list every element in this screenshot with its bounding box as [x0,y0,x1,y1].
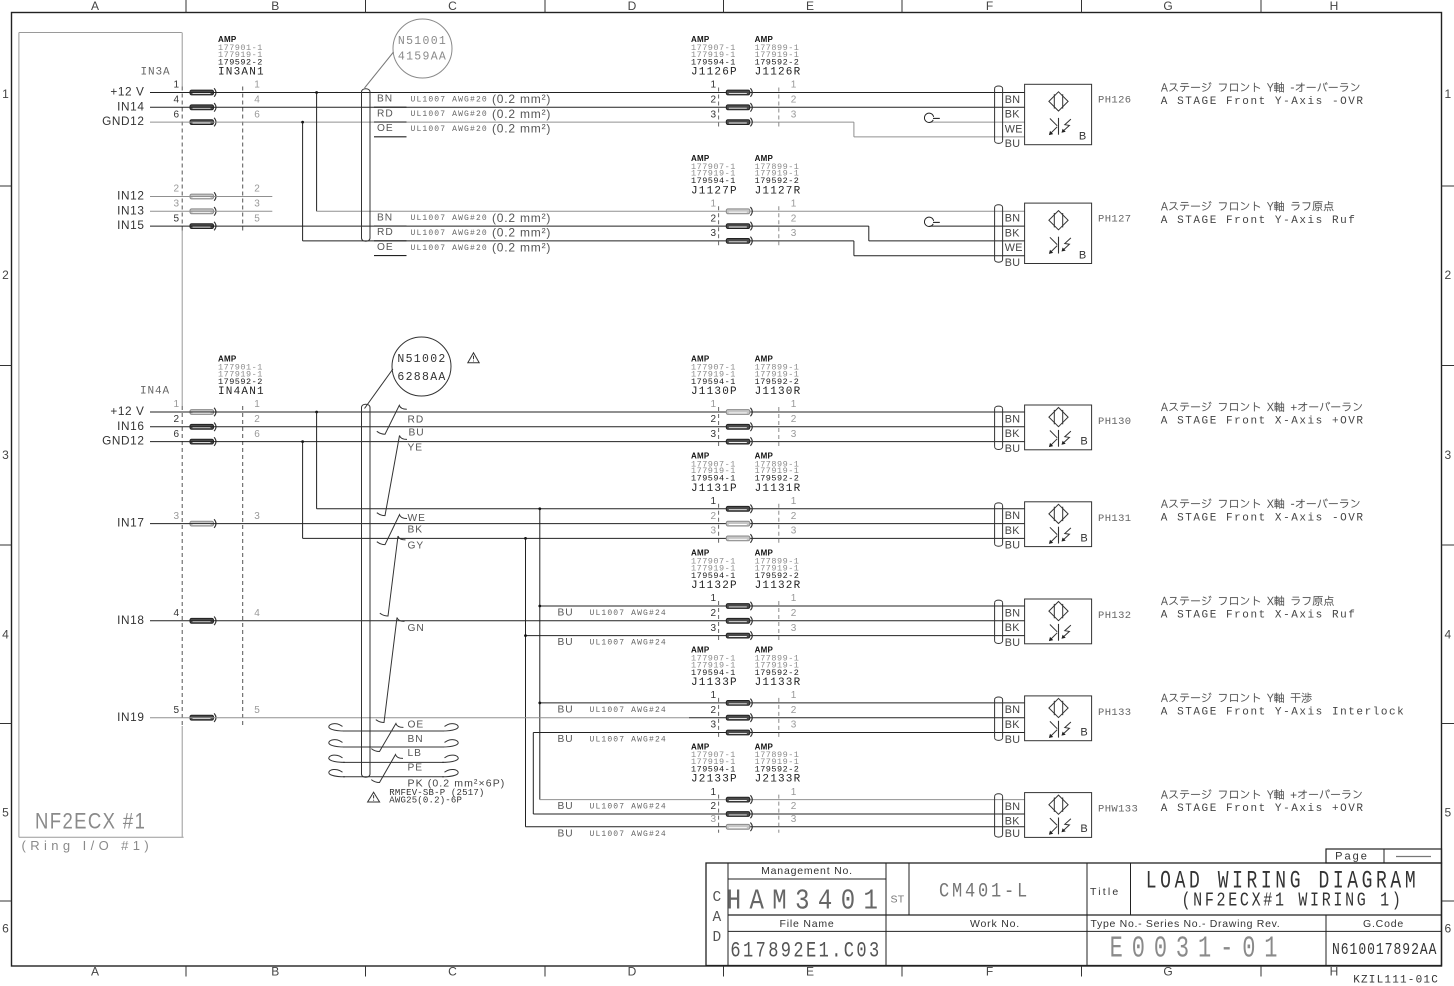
svg-text:BU: BU [1005,734,1021,746]
svg-text:UL1007 AWG#24: UL1007 AWG#24 [590,639,667,648]
connector J1133 mating dashed lines [718,698,720,739]
wire +12V row group6 [540,702,1025,704]
english label PH132 [1161,610,1357,622]
svg-text:OE: OE [377,123,394,134]
photo-interrupter PH133 box [1025,696,1092,741]
wire code OE group2 [377,242,394,253]
unused WE wire curl at PH126 [930,121,1025,123]
wire IN17 row group4 [150,523,1025,525]
sensor name PH133 [1098,707,1132,719]
terminal label BN PH133 [1005,704,1021,716]
terminal label BK PHW133 [1005,815,1021,827]
svg-text:(0.2 mm²): (0.2 mm²) [492,107,551,121]
svg-text:1: 1 [710,199,716,210]
svg-text:BU: BU [1005,443,1021,455]
LED emitter symbol PH131 [1049,504,1068,523]
svg-text:2: 2 [173,414,179,425]
wire +12V vertical group3 to group4 [316,412,318,509]
svg-text:WE: WE [1005,242,1023,254]
svg-text:BU: BU [409,428,425,439]
svg-text:2: 2 [2,268,9,282]
wire PH133 BU row group6 [533,732,1024,734]
LED emitter symbol PH126 [1049,92,1068,111]
node +12V junction group4 [538,507,541,510]
wire GND12 chain vertical [525,538,527,826]
svg-text:UL1007 AWG#20: UL1007 AWG#20 [411,110,488,119]
unused BK wire curl at PH127 [930,225,1025,227]
pin 1 of J1132 [710,593,716,604]
svg-text:BU: BU [558,828,574,839]
svg-text:B: B [271,0,279,13]
svg-text:J1130P: J1130P [691,386,738,398]
node GND12 junction group1 [301,121,304,124]
english label PHW133 [1161,803,1365,815]
svg-text:J2133P: J2133P [691,774,738,786]
wire GND12 row group7 [526,826,1025,828]
svg-text:D: D [628,0,637,13]
svg-text:2: 2 [791,511,797,522]
warning triangle cable note [368,792,380,802]
svg-text:6: 6 [173,109,179,120]
terminal label BK PH133 [1005,719,1021,731]
signal IN18 label and pin 4 of IN4A [117,613,144,627]
terminal label BN PH126 [1005,94,1021,106]
wire IN12 stub [150,196,272,198]
svg-text:2: 2 [791,95,797,106]
(Ring I/O #1) label [22,838,154,853]
english label PH127 [1161,215,1357,227]
node +12V junction group5 [538,605,541,608]
wire IN15 row [150,225,869,227]
wire IN19 row group6 [150,717,689,719]
svg-text:3: 3 [2,448,9,462]
svg-text:E: E [806,965,814,979]
connector J1127P part numbers [691,154,710,163]
photo-interrupter PH130 box [1025,405,1092,450]
svg-text:6288AA: 6288AA [397,371,446,384]
connector J1130R part numbers [755,355,774,364]
terminal label BU PH133 [1005,734,1021,746]
svg-text:4: 4 [254,95,260,106]
crossover mark GY [380,536,406,616]
cable spec PK (0.2 mm2 x 6P) [408,778,506,790]
g code value [1332,939,1438,959]
Type No Series No Drawing Rev header [1091,918,1281,930]
svg-text:PH132: PH132 [1098,610,1132,622]
wire +12V chain vertical [539,509,541,800]
svg-text:NF2ECX #1: NF2ECX #1 [35,810,146,834]
svg-text:J1127P: J1127P [691,185,738,197]
svg-text:4: 4 [173,95,179,106]
svg-text:2: 2 [710,511,716,522]
wire code BU AWG24 group7 r3 [558,828,574,839]
svg-text:C: C [712,890,721,906]
svg-text:OE: OE [377,242,394,253]
svg-text:UL1007 AWG#24: UL1007 AWG#24 [590,706,667,715]
pin 1 of J2133 [710,787,716,798]
svg-text:BN: BN [1005,94,1021,106]
drawing title line 1 [1146,867,1419,896]
svg-text:1: 1 [791,399,797,410]
svg-text:HAM3401: HAM3401 [727,885,887,918]
sensor name PH131 [1098,513,1132,525]
svg-text:PH127: PH127 [1098,213,1132,225]
sensor cable sheath PH132 [994,603,996,641]
svg-text:J1131R: J1131R [755,483,802,495]
svg-text:6: 6 [1444,922,1451,936]
svg-text:BN: BN [1005,510,1021,522]
pin 1 of J1131 [710,496,716,507]
connector J1130 mating dashed lines [718,407,720,448]
wire code GY trunk2 [408,540,425,551]
svg-text:6: 6 [254,109,260,120]
svg-text:2: 2 [710,801,716,812]
svg-text:AWG25(0.2)-6P: AWG25(0.2)-6P [389,796,462,806]
unused wire coil PE [343,776,444,778]
contact of IN3A pin 5 [190,224,214,229]
connector IN3A name [140,66,170,78]
crossover mark RD [377,405,407,434]
G.Code header [1363,918,1404,930]
wire code BU AWG24 group5 r1 [558,608,574,619]
wire code RD trunk2 [408,414,425,425]
work station CM401-L [939,879,1030,903]
svg-text:BN: BN [1005,801,1021,813]
svg-text:3: 3 [254,511,260,522]
node GND12 junction group5 [524,634,527,637]
svg-text:1: 1 [254,80,260,91]
svg-text:2: 2 [791,608,797,619]
B marking PH131 [1080,532,1087,544]
frame column letters top [91,0,99,13]
wire code BU AWG24 group6 r3 [558,734,574,745]
connector J1132P part numbers [691,549,710,558]
wire +12V row group7 [540,799,1025,801]
B marking PH127 [1079,249,1086,261]
svg-text:PH130: PH130 [1098,416,1132,428]
svg-text:1: 1 [710,690,716,701]
japanese label PH126 [1161,82,1359,92]
File Name header [779,918,834,930]
svg-text:UL1007 AWG#24: UL1007 AWG#24 [590,803,667,812]
connector J1133P part numbers [691,646,710,655]
svg-text:BU: BU [1005,828,1021,840]
connector mating dashed lines IN4A [181,406,183,726]
svg-text:UL1007 AWG#20: UL1007 AWG#20 [411,229,488,238]
sensor name PH132 [1098,610,1132,622]
japanese label PHW133 [1161,789,1362,799]
svg-text:KZIL111-01C: KZIL111-01C [1353,975,1439,986]
pin 3 of J2133 [710,814,716,825]
pin 3 of J1126 [710,109,716,120]
photo-interrupter PHW133 box [1025,793,1092,838]
svg-text:Management No.: Management No. [761,865,853,877]
signal IN15 label and pin 5 of IN3A [117,218,144,232]
svg-text:A STAGE Front Y-Axis -OVR: A STAGE Front Y-Axis -OVR [1161,96,1365,108]
svg-text:B: B [1080,823,1087,835]
svg-text:RD: RD [408,414,425,425]
svg-text:N610017892AA: N610017892AA [1332,939,1438,959]
file name value [730,938,881,963]
photo-interrupter PH132 box [1025,599,1092,644]
svg-text:A: A [712,910,721,926]
svg-text:BU: BU [1005,257,1021,269]
svg-text:N51001: N51001 [398,35,447,48]
svg-text:A: A [91,0,99,13]
connector J1131R part numbers [755,452,774,461]
svg-text:J1126P: J1126P [691,67,738,79]
leader line balloon N51001 [365,52,394,88]
svg-text:G: G [1163,0,1172,13]
svg-text:IN15: IN15 [117,218,144,232]
svg-text:UL1007 AWG#20: UL1007 AWG#20 [411,125,488,134]
terminal label BN PH127 [1005,213,1021,225]
svg-text:3: 3 [173,511,179,522]
svg-text:(Ring I/O #1): (Ring I/O #1) [22,838,154,853]
CAD letters [712,890,721,906]
warning triangle near balloon N51002 [468,353,479,363]
terminal label WE PH126 [1005,123,1023,135]
svg-text:RD: RD [377,108,394,119]
connector IN3A (NF2ECX side) part numbers [218,35,237,44]
wire code RD group1 [377,108,394,119]
frame column letters bottom [91,965,99,979]
connector J2133 mating dashed lines [718,795,720,833]
B marking PH130 [1080,436,1087,448]
svg-text:BU: BU [1005,138,1021,150]
sensor cable sheath PH126 [994,89,996,141]
signal IN12 label and pin 2 of IN3A [117,189,144,203]
svg-text:1: 1 [173,399,179,410]
svg-text:3: 3 [710,526,716,537]
connector J2133P part numbers [691,742,710,751]
svg-text:J1131P: J1131P [691,483,738,495]
svg-text:PH133: PH133 [1098,707,1132,719]
cable trunk N51002 sheath [361,408,363,775]
sensor cable sheath PH127 [994,208,996,260]
wire GND12 row group2 [303,240,854,242]
wire IN14 row group1 [150,106,1025,108]
contact of IN4A pin 6 [190,439,214,444]
sheet code KZIL111-01C [1353,975,1439,986]
svg-text:+12 V: +12 V [110,404,144,418]
balloon N51001 [393,19,452,78]
contact of IN4A pin 2 [190,424,214,429]
terminal label BU PH130 [1005,443,1021,455]
pin 3 of J1132 [710,623,716,634]
svg-text:UL1007 AWG#24: UL1007 AWG#24 [590,609,667,618]
LED emitter symbol PH130 [1049,408,1068,427]
frame ticks [185,0,187,13]
connector J1131 mating dashed lines [718,504,720,545]
svg-text:6: 6 [2,922,9,936]
B marking PHW133 [1080,823,1087,835]
signal GND12 label and pin 6 of IN4A [102,434,144,448]
contact of IN4A pin 3 [190,521,214,526]
cable trunk N51001 sheath [361,92,363,238]
unused wire coil BN [343,746,444,748]
svg-text:UL1007 AWG#20: UL1007 AWG#20 [411,214,488,223]
leader line balloon N51002 [365,369,393,409]
frame row numbers [2,87,9,101]
svg-text:3: 3 [791,623,797,634]
sensor cable sheath PH131 [994,506,996,544]
contact of IN4A pin 4 [190,618,214,623]
terminal label BU PH126 [1005,138,1021,150]
svg-text:GND12: GND12 [102,434,144,448]
wire GND12 jog down to BU PH127 [853,241,855,256]
svg-text:3: 3 [710,109,716,120]
svg-text:IN3AN1: IN3AN1 [218,67,265,79]
japanese label PH127 [1161,201,1333,211]
svg-text:3: 3 [791,814,797,825]
svg-text:1: 1 [791,199,797,210]
pin 1 of J1133 [710,690,716,701]
pin 2 of J1131 [710,511,716,522]
svg-text:J2133R: J2133R [755,774,802,786]
wire code WE trunk2 [408,513,426,524]
svg-text:2: 2 [710,608,716,619]
terminal label BN PH131 [1005,510,1021,522]
svg-text:6: 6 [173,429,179,440]
svg-text:J1132R: J1132R [755,580,802,592]
crossover mark WE [377,515,407,545]
node GND12 junction group4 [524,537,527,540]
connector J1132R part numbers [755,549,774,558]
svg-text:WE: WE [408,513,426,524]
wire IN15 jog down to WE PH127 [868,226,870,241]
svg-text:BU: BU [558,637,574,648]
svg-text:H: H [1330,965,1339,979]
wire GND12 jog down to BU PH126 [853,122,855,137]
svg-text:BK: BK [1005,815,1021,827]
japanese label PH132 [1161,596,1334,606]
svg-text:UL1007 AWG#24: UL1007 AWG#24 [590,830,667,839]
svg-text:E: E [806,0,814,13]
svg-text:IN19: IN19 [117,710,144,724]
signal IN14 label and pin 4 of IN3A [117,99,144,113]
svg-text:Type No.- Series No.- Drawing: Type No.- Series No.- Drawing Rev. [1091,918,1281,930]
LED emitter symbol PHW133 [1049,795,1068,814]
sensor name PH126 [1098,95,1132,107]
svg-text:WE: WE [1005,123,1023,135]
svg-text:BN: BN [408,734,424,745]
wire GND12 row group5 [526,635,1025,637]
wire code GN trunk2 [408,623,425,634]
svg-text:B: B [1080,436,1087,448]
wire IN16 row group3 [150,426,1025,428]
terminal label BK PH130 [1005,428,1021,440]
photo-interrupter PH127 box [1025,203,1092,263]
wire code BN coil [408,734,424,745]
svg-text:1: 1 [710,496,716,507]
wire PH133 BU to PHW133 BK vertical [532,733,534,815]
svg-text:3: 3 [791,526,797,537]
title block inner lines [727,863,729,966]
wire code BU AWG24 group5 r3 [558,637,574,648]
LED emitter symbol PH133 [1049,698,1068,717]
title block outline [706,863,1442,966]
sensor name PHW133 [1098,804,1138,816]
LED emitter symbol PH132 [1049,602,1068,621]
svg-text:BN: BN [1005,607,1021,619]
svg-text:5: 5 [254,213,260,224]
wire +12V row group2 to PH127 BN [317,210,1025,212]
svg-text:J1126R: J1126R [755,67,802,79]
wire code BN group2 [377,212,393,223]
signal IN13 label and pin 3 of IN3A [117,203,144,217]
svg-text:3: 3 [791,429,797,440]
svg-text:3: 3 [710,814,716,825]
pin 2 of J1132 [710,608,716,619]
svg-text:3: 3 [1444,448,1451,462]
svg-text:BU: BU [558,704,574,715]
contact of IN3A pin 6 [190,120,214,125]
svg-text:BN: BN [377,212,393,223]
svg-text:IN13: IN13 [117,203,144,217]
svg-text:LB: LB [408,748,422,759]
svg-text:IN4AN1: IN4AN1 [218,386,265,398]
svg-text:4159AA: 4159AA [398,51,447,64]
wire code OE coil [408,720,425,731]
ST label [890,894,904,906]
svg-text:UL1007 AWG#20: UL1007 AWG#20 [411,95,488,104]
svg-text:1: 1 [710,593,716,604]
svg-text:J1127R: J1127R [755,185,802,197]
terminal label BK PH131 [1005,525,1021,537]
wire code OE group1 [377,123,394,134]
phototransistor symbol PH130 [1058,430,1060,447]
wire code BK trunk2 [408,525,424,536]
svg-text:BU: BU [558,734,574,745]
wire GND12 vertical group3 to group4 [302,442,304,539]
svg-text:ST: ST [890,894,904,906]
pin 3 of J1131 [710,526,716,537]
svg-text:E0031-01: E0031-01 [1110,933,1287,968]
contact of IN3A pin 3 [190,209,214,214]
svg-text:4: 4 [173,608,179,619]
connector J1131P part numbers [691,452,710,461]
terminal label BN PH130 [1005,413,1021,425]
svg-text:3: 3 [791,228,797,239]
terminal label BU PH127 [1005,257,1021,269]
svg-text:2: 2 [710,414,716,425]
signal IN19 label and pin 5 of IN4A [117,710,144,724]
connector J1126 mating dashed lines [718,88,720,129]
svg-text:2: 2 [254,184,260,195]
svg-text:J1132P: J1132P [691,580,738,592]
svg-text:3: 3 [710,228,716,239]
svg-text:2: 2 [791,705,797,716]
svg-text:BK: BK [408,525,424,536]
wire +12V row group4 [317,508,1025,510]
crossover mark GN [376,618,405,723]
svg-text:File Name: File Name [779,918,834,930]
svg-text:D: D [628,965,637,979]
wire IN13 stub [150,210,272,212]
management number HAM3401 [727,885,887,918]
svg-text:BU: BU [1005,540,1021,552]
svg-text:2: 2 [173,184,179,195]
signal +12 V label and pin 1 of IN3A [110,85,144,99]
wire code LB coil [408,748,422,759]
signal GND12 label and pin 6 of IN3A [102,114,144,128]
svg-text:A STAGE Front Y-Axis +OVR: A STAGE Front Y-Axis +OVR [1161,803,1365,815]
wire GND12 vertical to group2 [302,122,304,241]
contact of IN4A pin 5 [190,715,214,720]
contact of IN3A pin 4 [190,105,214,110]
svg-text:2: 2 [710,705,716,716]
